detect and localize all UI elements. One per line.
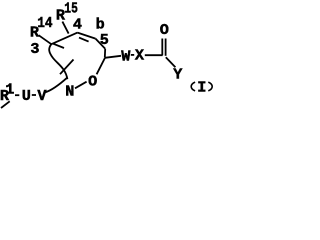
bond C5 junction to ring O	[97, 58, 105, 74]
wire curved ring edge C3 to N	[49, 44, 67, 79]
wire C=O double bond left line	[161, 39, 163, 56]
svg-text:R: R	[30, 23, 40, 41]
wire inner dash at C3	[53, 43, 65, 48]
svg-text:I: I	[197, 79, 206, 97]
wire short stroke crossing C3-N bond	[60, 60, 74, 75]
svg-text:1: 1	[5, 80, 14, 98]
wire ring edge C4 apex to bend	[78, 33, 96, 39]
bond X to carbonyl C	[145, 54, 163, 56]
label right paren of (I)	[208, 82, 212, 91]
wire dash U-V	[32, 94, 36, 96]
wire inner double-bond dash upper	[79, 38, 89, 42]
svg-text:14: 14	[37, 14, 52, 32]
svg-text:O: O	[160, 21, 169, 39]
wire ring edge C3 to C4 apex	[51, 33, 77, 45]
label left paren of (I)	[191, 82, 195, 91]
svg-text:5: 5	[100, 31, 109, 49]
wire stray bond at R1 lower left	[1, 101, 10, 108]
wire C5 vertical stub	[104, 49, 106, 58]
bond R15 to C4 ring edge	[62, 22, 68, 34]
svg-text:O: O	[88, 73, 97, 91]
wire C=O double bond right line	[165, 39, 167, 56]
chemical structure formula (I)	[0, 0, 216, 112]
svg-text:U: U	[22, 87, 31, 105]
bond N to O	[75, 82, 87, 89]
svg-text:N: N	[65, 82, 74, 100]
bond C5 junction to W	[105, 56, 121, 58]
svg-text:3: 3	[30, 40, 39, 58]
bond R14 to C3	[39, 35, 52, 44]
svg-text:4: 4	[73, 15, 82, 33]
wire dash W-X	[131, 54, 134, 56]
svg-text:W: W	[121, 47, 131, 65]
bond carbonyl C to Y	[166, 57, 176, 67]
svg-text:R: R	[56, 7, 66, 25]
wire dash R1-U	[15, 94, 19, 96]
svg-text:Y: Y	[173, 65, 183, 83]
bond V up toward ring	[45, 78, 67, 92]
wire ring edge bend to C5	[96, 39, 106, 49]
svg-text:X: X	[135, 47, 145, 65]
svg-text:V: V	[37, 87, 47, 105]
